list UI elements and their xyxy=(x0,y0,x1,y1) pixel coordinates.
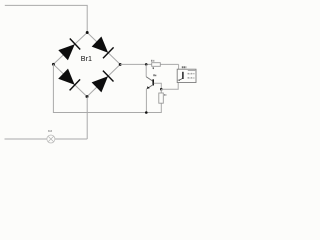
wire down into DC1 top xyxy=(178,64,180,70)
diode D4 bottom-to-right xyxy=(92,71,114,93)
label Tr xyxy=(153,74,156,76)
connector DC1 box xyxy=(177,69,196,82)
label La1 xyxy=(48,130,52,132)
wire bridge edge B-R xyxy=(87,64,120,96)
wire base junction to DC1 bottom xyxy=(161,83,178,90)
DC1 switch lever xyxy=(179,78,183,80)
label R0 xyxy=(164,94,166,96)
label Br1 xyxy=(81,54,92,63)
node base junction xyxy=(160,88,163,91)
wire right node to R1 and DC1 xyxy=(120,63,178,65)
wire bridge edge L-B xyxy=(53,64,87,96)
wire lamp rail left segment xyxy=(5,138,47,140)
label DC1 xyxy=(182,66,187,68)
wire bottom node down to lamp rail xyxy=(86,97,88,139)
diode D2 top-to-right xyxy=(92,37,114,59)
label R1 value mark xyxy=(153,67,154,69)
wire bridge edge T-R xyxy=(87,33,120,65)
label R1 xyxy=(151,60,154,62)
DC1 left pin stub xyxy=(177,79,179,81)
transistor Tr collector diagonal xyxy=(146,77,153,81)
wire lamp rail right segment xyxy=(55,138,87,140)
DC1 pin marks right xyxy=(188,70,196,72)
wire collector lead down xyxy=(145,64,147,76)
transistor Tr bar xyxy=(152,79,154,85)
diode D3 left-to-bottom xyxy=(58,69,80,91)
node top of bridge xyxy=(86,31,89,34)
lamp La1 xyxy=(47,135,55,143)
DC1 tip contact bar xyxy=(182,72,184,79)
node right of bridge xyxy=(119,63,122,66)
wire base to junction xyxy=(154,83,162,89)
node left of bridge xyxy=(52,63,55,66)
wire top AC rail xyxy=(5,5,87,32)
wire emitter lead down xyxy=(145,89,147,113)
wire left node down and negative rail xyxy=(53,64,161,112)
svg-text:Br1: Br1 xyxy=(81,54,92,63)
node collector junction xyxy=(145,63,148,66)
resistor R0 xyxy=(159,93,164,103)
wire bridge edge L-T xyxy=(53,33,87,65)
node emitter to rail xyxy=(145,111,148,114)
transistor Tr emitter diagonal with arrow xyxy=(147,85,153,89)
node bottom of bridge xyxy=(86,95,89,98)
resistor R1 xyxy=(152,63,161,67)
wire base junction down to R0 xyxy=(160,89,162,93)
diode D1 left-to-top xyxy=(58,39,80,61)
